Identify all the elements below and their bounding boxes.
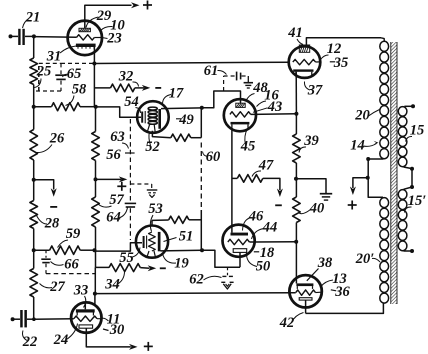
cathode 42 of tube 13: [299, 298, 312, 300]
transformer secondary 15 prime winding: [398, 190, 407, 251]
anode 46 of tube 18: [231, 233, 249, 236]
wire bus 26-28: [33, 160, 35, 201]
dashed wire cap 66 to node: [46, 264, 95, 274]
tube 12 envelope: [289, 46, 321, 78]
label 40: [299, 201, 325, 217]
cathode 30 of tube 11: [79, 325, 93, 328]
label 57: [98, 192, 125, 208]
cathode lead tube 10: [93, 47, 95, 64]
cathode lead tube 12: [295, 72, 297, 114]
load resistor of tube 19: [169, 216, 189, 223]
dashed branch to ground 60: [130, 184, 151, 189]
tube 18 envelope: [223, 225, 255, 257]
capacitor 61: [237, 72, 241, 81]
svg-text:45: 45: [240, 139, 256, 155]
wire input2 to junction: [27, 318, 34, 320]
arrow down bias minus: [51, 188, 57, 197]
arrow right bias plus: [119, 176, 128, 182]
label 41: [287, 25, 303, 45]
wire resistor 32 to arrow: [135, 87, 144, 89]
minus dash 32: [155, 87, 161, 89]
wire grid tube 10: [34, 36, 77, 39]
label 30: [103, 322, 124, 338]
label 60: [203, 149, 221, 165]
tube 16 envelope: [224, 99, 256, 131]
wire long coupling 11 to 13: [95, 292, 296, 295]
label 61: [204, 63, 227, 79]
svg-text:40: 40: [309, 201, 325, 217]
dashed ground near 53: [147, 190, 158, 197]
anode wire tube 17: [161, 107, 202, 110]
wire load resistor to cathode 17: [152, 131, 170, 138]
wire bus 27-input2: [33, 297, 35, 319]
dashed ground 62 stem: [227, 267, 229, 275]
wire 40 to node 44: [295, 223, 297, 242]
label 50: [246, 253, 270, 275]
secondary 15 top terminal: [404, 104, 415, 108]
capacitor 22: [20, 310, 27, 327]
wire branch resistor 47: [232, 177, 237, 179]
node junction input top: [32, 34, 36, 38]
label 25: [35, 64, 52, 88]
svg-text:14: 14: [350, 138, 365, 154]
input terminal bottom: [11, 317, 20, 321]
filament coil 52 of tube 17: [147, 107, 157, 132]
wire node down to 34: [95, 251, 97, 267]
tube 17 envelope: [137, 101, 169, 133]
svg-text:21: 21: [25, 10, 41, 26]
grid 36 of tube 13: [296, 290, 321, 295]
wire branch resistor 34: [96, 266, 110, 268]
label 33: [73, 283, 89, 308]
wire bias arrow branch: [96, 178, 122, 180]
anode lead tube 12: [306, 38, 381, 45]
wire to load resistor 19: [152, 219, 169, 221]
label 20: [354, 108, 379, 124]
label 18: [254, 245, 275, 261]
input element 55 of tube 19: [143, 236, 147, 249]
resistor 32: [111, 84, 135, 92]
wire resistor 58 to node: [80, 106, 96, 108]
arrow right 32: [142, 85, 151, 91]
svg-text:23: 23: [106, 31, 122, 47]
node secondary mid bottom: [410, 185, 414, 189]
label 62: [189, 272, 221, 288]
label 26: [37, 131, 66, 153]
label 21: [23, 10, 41, 29]
svg-text:66: 66: [64, 257, 79, 273]
label 22: [22, 331, 38, 351]
label 28: [37, 216, 61, 232]
dashed ground 62 vee: [223, 284, 231, 289]
node grid 44 junction: [294, 240, 298, 244]
label 56: [106, 147, 121, 163]
label 12: [321, 41, 342, 60]
label 49: [176, 112, 194, 128]
resistor 47: [237, 175, 262, 183]
label 58: [66, 82, 88, 106]
svg-text:25: 25: [36, 64, 52, 80]
svg-text:42: 42: [279, 315, 295, 331]
resistor 59: [50, 246, 81, 254]
wire grid tube 11: [34, 318, 74, 320]
label 52: [145, 132, 160, 156]
node secondary mid top: [410, 167, 414, 171]
svg-text:31: 31: [46, 49, 62, 65]
wire input to junction: [25, 35, 34, 37]
label 10: [101, 18, 125, 34]
plus sign top: [143, 1, 152, 10]
wire node to tube 17 input: [96, 107, 141, 117]
label 47: [252, 158, 274, 177]
label 38: [307, 255, 333, 281]
minus dash 34: [160, 267, 166, 269]
input element 54 of tube 17: [141, 111, 145, 123]
svg-text:24: 24: [53, 332, 69, 348]
ground near 61: [244, 83, 253, 88]
anode element 48 of tube 16: [236, 103, 245, 107]
dashed line 64 to tube 19: [129, 208, 131, 240]
label 36: [331, 284, 351, 300]
transformer secondary 15 winding: [398, 107, 407, 167]
wire long coupling 10 to 12: [94, 62, 289, 63]
label 59: [58, 226, 81, 248]
label 20p: [355, 251, 380, 267]
svg-text:64: 64: [106, 210, 121, 226]
label 16: [257, 88, 280, 107]
svg-text:30: 30: [109, 322, 125, 338]
svg-text:20′: 20′: [355, 251, 375, 267]
resistor 27: [30, 269, 38, 298]
svg-text:27: 27: [49, 279, 65, 295]
resistor 57: [92, 197, 100, 227]
dashed ground 62 bars: [221, 276, 233, 282]
cathode lead tube 11: [86, 328, 131, 347]
cathode lead tube 13: [305, 300, 307, 313]
node cathode 12: [294, 112, 298, 116]
svg-text:60: 60: [206, 149, 221, 165]
plus sign bottom: [144, 342, 153, 351]
svg-text:53: 53: [148, 201, 163, 217]
anode element 41 of tube 12: [299, 45, 309, 52]
wire bus 28-27: [33, 229, 35, 269]
svg-text:55: 55: [119, 250, 134, 266]
node center tap top: [366, 157, 370, 161]
wire node down to anode 38: [295, 242, 297, 284]
node 59 right: [93, 248, 97, 252]
label 65: [63, 66, 82, 82]
wire node down to resistor 39: [295, 114, 297, 134]
wire 57 to node 250: [95, 227, 97, 251]
plus sign bias: [117, 182, 126, 191]
grid 35 of tube 12: [293, 59, 321, 64]
anode element 29 of tube 10: [79, 28, 90, 31]
grid 43 of tube 16: [230, 112, 251, 117]
resistor 26: [30, 130, 38, 161]
label 29: [86, 8, 111, 28]
transformer core: [391, 42, 397, 304]
label 63: [110, 129, 128, 149]
wire bus to resistor 59: [34, 249, 50, 251]
cathode 45 of tube 16: [231, 122, 250, 128]
dashed wire capacitor 61: [224, 76, 235, 91]
wire cathode bus down: [93, 64, 95, 107]
node anode 17: [200, 106, 204, 110]
wire node down to plate wire: [94, 267, 96, 293]
wire B plus branch: [353, 178, 368, 188]
tube 13 envelope: [289, 275, 321, 307]
node junction input bottom: [32, 317, 36, 321]
resistor 56: [92, 132, 100, 161]
grid 44 of tube 18: [228, 239, 250, 244]
anode top stub tube 19: [151, 220, 153, 225]
wire grid 16 to node: [251, 113, 297, 116]
anode 33 of tube 11: [76, 309, 95, 315]
arrow right 34: [148, 265, 157, 271]
dashed box around resistor 25: [36, 63, 61, 91]
wire 39 to 40: [295, 163, 297, 197]
label 64: [106, 208, 127, 226]
node plate 11: [93, 292, 97, 296]
wire branch bias tap: [34, 180, 54, 190]
wire 60 solid lower: [200, 210, 202, 250]
label 15p: [405, 193, 427, 213]
label 11: [102, 312, 121, 328]
node bus 180: [32, 178, 36, 182]
arrow right plus bottom: [129, 344, 138, 350]
dashed line from tube 17: [129, 119, 131, 202]
capacitor 64: [125, 203, 136, 207]
svg-text:50: 50: [256, 259, 271, 275]
label 17: [163, 86, 185, 104]
node bias tap 95: [94, 177, 98, 181]
wire bus 25-26: [33, 85, 35, 130]
wire anode node down: [200, 108, 202, 138]
grid 23 of tube 10: [77, 35, 102, 40]
label 46: [243, 209, 265, 231]
svg-text:32: 32: [118, 69, 134, 85]
label 39: [299, 133, 319, 153]
wire load resistor 19 to node: [189, 219, 201, 221]
wire secondary series link: [411, 169, 413, 187]
svg-text:19: 19: [174, 256, 189, 272]
node ground tap: [294, 177, 298, 181]
tube 10 envelope: [68, 21, 102, 55]
tick on dashed line: [125, 152, 135, 154]
svg-text:26: 26: [49, 131, 65, 147]
anode lead tube 10: [84, 21, 86, 29]
plate supply lead tube 10: [85, 5, 132, 20]
cathode 31 of tube 10: [76, 44, 96, 49]
wire center tap down: [368, 159, 383, 197]
wire bus 95 down: [95, 107, 97, 132]
cathode lead tube 18: [239, 252, 241, 267]
svg-text:51: 51: [179, 229, 194, 245]
minus sign: [50, 206, 57, 208]
grid 24 of tube 11: [74, 316, 101, 321]
label 45: [240, 129, 256, 155]
tube 19 envelope: [136, 226, 168, 258]
cathode 37 of tube 12: [293, 69, 313, 75]
resistor 34: [109, 264, 140, 272]
label 55: [119, 248, 140, 267]
secondary bottom terminal: [410, 249, 414, 253]
label 13: [321, 271, 347, 287]
label 48: [246, 80, 269, 102]
wire resistor 59 to node: [80, 249, 94, 251]
label 66: [51, 257, 80, 273]
label 51: [164, 229, 194, 245]
wire bus top segment: [33, 36, 35, 58]
tube 11 envelope: [71, 302, 101, 332]
label 24: [53, 324, 78, 349]
wire to ground 40: [296, 179, 326, 194]
label 35: [330, 55, 348, 71]
label 23: [102, 31, 122, 47]
svg-text:41: 41: [287, 25, 303, 41]
svg-text:20: 20: [354, 108, 370, 124]
label 42: [279, 313, 304, 332]
wire bus to resistor 58: [34, 106, 52, 108]
secondary 15 prime bottom lead: [404, 250, 413, 252]
svg-text:65: 65: [67, 66, 82, 82]
label 34: [104, 272, 124, 293]
svg-text:38: 38: [317, 255, 333, 271]
dashed line 60: [200, 143, 202, 211]
svg-text:61: 61: [204, 63, 219, 79]
arrow plus supply top: [131, 2, 140, 8]
node bus 107: [32, 105, 36, 109]
svg-text:17: 17: [169, 86, 184, 102]
label 44: [252, 220, 278, 240]
secondary 15 bottom lead: [404, 167, 413, 169]
label 14: [350, 138, 378, 154]
transformer primary 20 prime lower winding: [380, 198, 389, 303]
resistor 28: [30, 201, 38, 229]
wire cathode 13 to transformer: [306, 303, 384, 313]
node B plus tap: [366, 176, 370, 180]
capacitor 21: [18, 29, 25, 45]
input terminal top: [9, 34, 19, 38]
wire capacitor 61 to ground: [242, 76, 249, 82]
resistor 25: [30, 58, 38, 85]
svg-text:62: 62: [189, 272, 204, 288]
resistor 40: [293, 197, 301, 223]
svg-text:36: 36: [334, 284, 350, 300]
dashed stub resistor 59 to cap 66: [45, 250, 47, 258]
anode output wire tube 19: [161, 249, 203, 252]
wire anode 17 to anode 16: [202, 91, 241, 108]
svg-text:37: 37: [307, 83, 323, 99]
center tap wire: [368, 158, 383, 160]
wire to load resistor 17: [191, 137, 202, 139]
wire 47 to arrow: [263, 178, 280, 190]
wire output 19 to cathode 18: [202, 250, 240, 267]
resistor 39: [293, 134, 301, 163]
load resistor of tube 17: [171, 134, 191, 141]
ground 40: [320, 194, 332, 200]
wire 56 to node: [95, 161, 97, 198]
secondary 15 prime top lead: [404, 187, 413, 189]
anode 38 of tube 13: [296, 283, 313, 289]
anode lead tube 11: [85, 294, 95, 310]
filament coil 53 of tube 19: [147, 232, 155, 257]
node output 19: [200, 248, 204, 252]
wire bus to tube 19 input: [96, 243, 143, 251]
svg-text:29: 29: [96, 8, 112, 24]
label 37: [304, 82, 323, 99]
cathode lead tube 16 down: [231, 128, 233, 233]
transformer primary 20 upper winding: [380, 38, 389, 159]
label 43: [253, 99, 282, 115]
plus sign B supply: [348, 201, 357, 210]
svg-text:57: 57: [109, 192, 124, 208]
svg-text:52: 52: [145, 139, 160, 155]
label 31: [46, 46, 76, 65]
svg-text:49: 49: [178, 112, 194, 128]
minus dash 47: [275, 204, 282, 206]
anode 49 of tube 17: [158, 109, 161, 129]
dashed wire box to cathode node: [61, 62, 93, 64]
resistor 58: [52, 103, 81, 111]
svg-text:22: 22: [22, 334, 38, 350]
node 58 right: [94, 105, 98, 109]
svg-text:44: 44: [262, 220, 278, 236]
label 53: [148, 201, 163, 232]
svg-text:58: 58: [72, 82, 87, 98]
arrow down 47 minus: [277, 189, 283, 198]
svg-text:35: 35: [333, 55, 349, 71]
label 32: [118, 69, 139, 87]
svg-text:43: 43: [267, 99, 283, 115]
label 54: [124, 94, 140, 113]
cathode 50 of tube 18: [233, 249, 247, 253]
svg-text:56: 56: [106, 147, 121, 163]
wire 34 to arrow: [140, 267, 149, 270]
arrow down B plus: [350, 187, 356, 196]
svg-text:33: 33: [73, 283, 89, 299]
node cathode 10: [92, 62, 96, 66]
label 27: [40, 279, 66, 295]
label 19: [163, 254, 189, 272]
label 15: [406, 123, 425, 142]
wire branch to resistor 32: [94, 87, 110, 89]
capacitor 65: [55, 75, 66, 79]
svg-text:46: 46: [248, 209, 264, 225]
node bus 250: [32, 248, 36, 252]
wire grid 18 to node: [249, 241, 296, 243]
anode 51 of tube 19: [158, 232, 161, 251]
capacitor 66: [41, 259, 50, 262]
